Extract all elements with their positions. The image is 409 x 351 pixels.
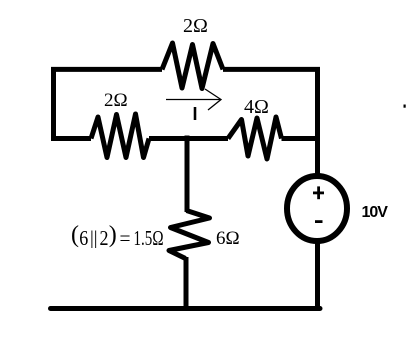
svg-text:6Ω: 6Ω (216, 228, 240, 249)
svg-text:=: = (120, 226, 131, 250)
voltage source V1 circle (287, 176, 347, 241)
wire middle-right horizontal (282, 136, 321, 141)
svg-text:(: ( (71, 222, 79, 248)
wire middle-center horizontal (149, 136, 228, 141)
wire middle vertical lower (184, 257, 189, 311)
svg-text:): ) (109, 222, 117, 248)
resistor R2 2ohm middle (91, 114, 149, 158)
wire right vertical upper (315, 67, 320, 175)
svg-text:2Ω: 2Ω (104, 90, 128, 111)
wire top-left horizontal (51, 67, 162, 72)
wire left vertical (51, 67, 56, 141)
wire right vertical lower (315, 242, 320, 311)
svg-text:||: || (90, 228, 98, 249)
svg-text:4Ω: 4Ω (244, 96, 269, 118)
current arrow I (166, 89, 221, 110)
svg-text:10V: 10V (362, 204, 389, 221)
svg-text:2: 2 (100, 226, 109, 250)
wire top-right horizontal (223, 67, 320, 72)
wire middle-left horizontal (51, 136, 91, 141)
wire bottom horizontal (51, 306, 321, 311)
svg-text:6: 6 (79, 226, 88, 250)
stray period mark (404, 105, 406, 108)
wire middle vertical upper (185, 136, 190, 213)
voltage source plus sign (313, 186, 324, 199)
resistor R4 6ohm vertical (169, 211, 210, 259)
svg-text:2Ω: 2Ω (183, 15, 208, 37)
resistor R3 4ohm (228, 117, 282, 159)
resistor R1 2ohm top (162, 43, 223, 89)
label equivalent resistance (6||2)=1.5ohm (71, 222, 164, 250)
svg-text:1.5Ω: 1.5Ω (134, 226, 164, 250)
voltage source minus sign (315, 220, 323, 223)
svg-text:I: I (192, 104, 197, 124)
